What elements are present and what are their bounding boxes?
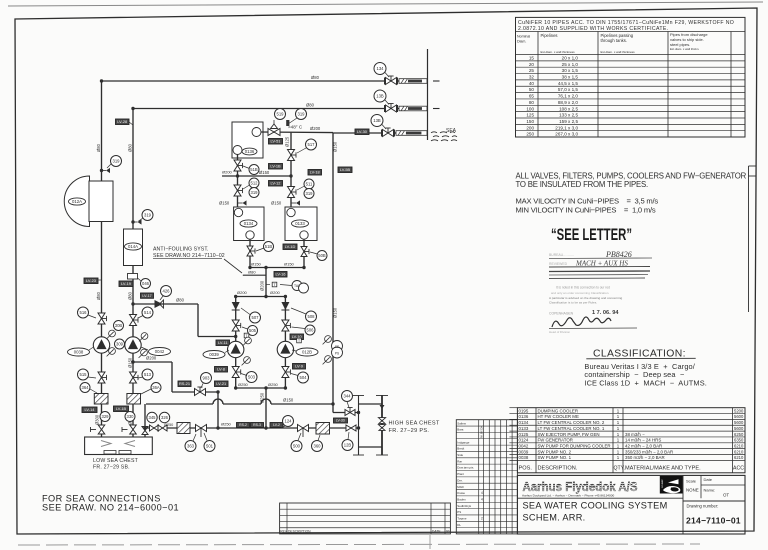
svg-text:Ø80: Ø80	[311, 75, 320, 80]
pipe Ø200 drain from V2	[133, 361, 172, 363]
svg-text:0195: 0195	[519, 408, 529, 413]
svg-text:0042: 0042	[155, 349, 165, 354]
svg-text:RS-21: RS-21	[179, 381, 190, 386]
svg-text:PS: PS	[335, 352, 339, 356]
junction nodes	[236, 174, 239, 177]
vent flag cooler no1 inlet	[291, 202, 296, 204]
thermometer branch no.1	[297, 338, 302, 343]
valve 516 on V1	[98, 313, 107, 324]
pressure gauges V1 pump	[107, 330, 116, 339]
svg-text:100: 100	[526, 106, 534, 111]
svg-text:503: 503	[248, 375, 256, 380]
svg-text:ICE Class 1D + MACH − AUTM: ICE Class 1D + MACH − AUTMS.	[584, 378, 707, 387]
svg-text:6250: 6250	[734, 432, 744, 437]
svg-text:134: 134	[377, 66, 385, 71]
svg-text:SW EJECTOR PUMP, FW GEN: SW EJECTOR PUMP, FW GEN	[538, 432, 600, 437]
pipe cooler outlet to tee	[261, 131, 333, 134]
svg-text:DESCRIPTION: DESCRIPTION	[288, 530, 311, 534]
valve 13B discharge line 2	[386, 104, 397, 113]
svg-text:Ø80: Ø80	[96, 291, 101, 300]
valve on sea chest riser	[142, 427, 148, 435]
valve 344 high sea chest inlet	[345, 408, 355, 416]
label ellipse 014A	[125, 243, 142, 250]
label LV-17 on V2	[141, 293, 154, 298]
valve branch no.2	[232, 320, 241, 331]
label LV-19	[119, 281, 133, 287]
pipe V2 second suction riser	[132, 109, 134, 437]
label LV-12	[269, 181, 283, 187]
svg-text:DUMPING COOLER: DUMPING COOLER	[538, 408, 579, 413]
svg-text:507: 507	[252, 315, 260, 320]
elbow to high sea chest	[332, 404, 334, 413]
svg-text:44,5 x 1,5: 44,5 x 1,5	[558, 81, 579, 86]
circle 326	[159, 412, 169, 422]
svg-text:012A: 012A	[72, 199, 82, 204]
svg-text:LOW SEA CHEST: LOW SEA CHEST	[93, 458, 139, 464]
label ellipse 0039	[203, 351, 225, 359]
sea water filter V2	[127, 394, 141, 405]
vent flag cooler no2 inlet	[238, 202, 243, 204]
svg-text:501: 501	[206, 444, 214, 449]
svg-text:319: 319	[113, 159, 121, 164]
svg-text:LV-11: LV-11	[218, 340, 228, 345]
svg-text:SW PUMP FOR DUMPING COOLER: SW PUMP FOR DUMPING COOLER	[538, 443, 611, 448]
svg-text:0038: 0038	[74, 350, 84, 355]
svg-text:SW PUMP NO. 2: SW PUMP NO. 2	[538, 449, 572, 454]
svg-text:504: 504	[300, 375, 308, 380]
label ellipse 0133	[292, 220, 309, 227]
svg-text:Rør: Rør	[457, 459, 462, 463]
svg-text:319: 319	[251, 190, 259, 195]
svg-text:516: 516	[80, 310, 88, 315]
svg-text:12B: 12B	[344, 443, 352, 448]
sea water filter V1	[94, 394, 108, 405]
label LV-21	[215, 381, 229, 387]
svg-text:14 m3/h − 24 HRS: 14 m3/h − 24 HRS	[625, 438, 661, 443]
svg-text:RS-2: RS-2	[239, 423, 247, 427]
svg-text:Ø200: Ø200	[146, 356, 157, 361]
svg-text:426: 426	[163, 289, 171, 294]
pipe line overboard discharge no.2	[133, 108, 386, 110]
svg-text:Ø150: Ø150	[333, 141, 338, 152]
circle 503	[246, 372, 257, 383]
label LV-5B on V3	[338, 167, 352, 173]
anti-fouling unit 014A	[124, 229, 143, 266]
label ellipse 012A	[69, 198, 86, 205]
svg-text:014A: 014A	[128, 244, 138, 249]
circle 344	[342, 391, 353, 402]
svg-text:6210: 6210	[734, 443, 744, 448]
svg-text:345: 345	[149, 415, 157, 420]
svg-text:MAD: MAD	[457, 485, 463, 489]
svg-text:CuNiFER 10 PIPES ACC. TO DIN 1: CuNiFER 10 PIPES ACC. TO DIN 1755/17671−…	[518, 20, 734, 26]
svg-text:Krøse: Krøse	[457, 491, 465, 495]
label LV-1D	[283, 244, 297, 250]
circle 309	[115, 339, 125, 349]
circle 363	[185, 441, 196, 452]
svg-text:360: 360	[314, 444, 322, 449]
label RS-21	[178, 381, 191, 387]
svg-text:LV-2: LV-2	[273, 423, 280, 427]
svg-text:SE: SE	[335, 345, 339, 349]
svg-text:Baden: Baden	[457, 497, 466, 501]
label LV-1B header	[269, 164, 283, 170]
svg-text:505: 505	[249, 328, 257, 333]
svg-text:57,0 x 1,5: 57,0 x 1,5	[558, 87, 579, 92]
anti-fouling injection fitting	[128, 274, 138, 280]
SW pump no.1 0038	[93, 337, 109, 353]
svg-text:DESCRIPTION.: DESCRIPTION.	[538, 466, 578, 472]
svg-text:Ø150: Ø150	[219, 201, 230, 206]
svg-text:20 x 1,0: 20 x 1,0	[562, 55, 579, 60]
svg-text:LV-3D: LV-3D	[336, 419, 346, 423]
svg-text:6210: 6210	[734, 449, 744, 454]
label ellipse 0136	[242, 148, 257, 155]
svg-text:REV.: REV.	[280, 530, 288, 534]
svg-text:LV-23: LV-23	[86, 278, 96, 283]
svg-text:125: 125	[526, 113, 534, 118]
steel pipe to ship side line 2	[397, 108, 400, 110]
valve 12B bottom right	[346, 425, 356, 431]
valve branch no.1	[282, 320, 291, 331]
svg-text:319: 319	[144, 213, 152, 218]
svg-text:5600: 5600	[734, 414, 744, 419]
svg-text:LV-28: LV-28	[117, 119, 127, 124]
svg-text:POS.: POS.	[519, 466, 533, 472]
svg-text:38 x 1,5: 38 x 1,5	[562, 75, 579, 80]
svg-text:PB8426: PB8426	[605, 250, 632, 259]
check valve on Ø80 branch	[155, 300, 164, 308]
svg-text:NI.BY.DK: NI.BY.DK	[480, 426, 484, 438]
svg-text:124: 124	[285, 419, 293, 424]
valve 515 on V1	[98, 372, 107, 383]
gauges pump 0039	[243, 337, 252, 346]
svg-text:LV-1D: LV-1D	[285, 244, 296, 249]
company logo	[660, 476, 683, 494]
svg-text:51B: 51B	[265, 244, 273, 249]
svg-text:Plant: Plant	[457, 472, 464, 476]
pipe cooler outlet collector	[250, 267, 304, 269]
svg-text:6210: 6210	[734, 455, 744, 460]
valve 134 discharge line 1	[386, 76, 397, 85]
svg-text:159 x 2,5: 159 x 2,5	[559, 119, 578, 124]
svg-text:Drawing number:: Drawing number:	[687, 504, 719, 509]
svg-text:0039: 0039	[519, 449, 529, 454]
materials data strip table	[456, 420, 517, 534]
svg-text:Ø150: Ø150	[259, 170, 270, 175]
svg-text:REVIEWED: REVIEWED	[549, 262, 568, 266]
valve bottom branch no.2	[232, 367, 241, 378]
svg-text:506: 506	[307, 328, 315, 333]
svg-text:13B: 13B	[373, 118, 381, 123]
svg-text:DL: DL	[457, 523, 461, 527]
svg-text:and only an order concerning C: and only an order concerning Classificat…	[551, 291, 609, 295]
svg-text:508: 508	[308, 314, 316, 319]
sea chest outlet valves	[150, 425, 159, 431]
check valve branch no.1	[281, 302, 289, 310]
svg-text:513: 513	[144, 372, 152, 377]
pipe center pump branch no.2	[235, 297, 237, 389]
svg-text:Aarhus Flydedok A/S: Aarhus Flydedok A/S	[523, 480, 638, 494]
svg-text:MAX VILOCITY IN CuNi−PIPES: MAX VILOCITY IN CuNi−PIPES = 3,5 m/s	[516, 197, 659, 206]
svg-text:through tanks.: through tanks.	[601, 38, 628, 43]
svg-text:88,9 x 2,0: 88,9 x 2,0	[558, 100, 579, 105]
label LV-28	[116, 119, 130, 125]
valve 51B top cooler feed	[234, 160, 243, 171]
svg-text:Dre.: Dre.	[457, 478, 463, 482]
valve 501 bottom	[196, 425, 207, 432]
pipe top cooler feed	[237, 154, 239, 209]
svg-text:36A: 36A	[152, 385, 160, 390]
svg-text:76,1 x 2,0: 76,1 x 2,0	[558, 94, 579, 99]
circle 329	[100, 412, 110, 422]
svg-text:Side: Side	[457, 453, 463, 457]
svg-text:Ø125: Ø125	[285, 136, 290, 147]
svg-text:Ø200: Ø200	[270, 290, 281, 295]
circle 30B	[114, 321, 124, 331]
label ellipse 0134	[240, 220, 257, 227]
svg-text:NONE: NONE	[686, 488, 699, 493]
svg-text:Ø250: Ø250	[260, 392, 265, 403]
svg-text:Ext.diam. x wall thickn.: Ext.diam. x wall thickn.	[670, 47, 699, 51]
circle 345	[147, 412, 157, 422]
svg-text:Scale: Scale	[686, 479, 697, 484]
svg-text:1 7. 06. 94: 1 7. 06. 94	[592, 310, 619, 316]
svg-text:214−7110−01: 214−7110−01	[686, 516, 741, 526]
svg-text:32: 32	[529, 75, 535, 80]
svg-text:40: 40	[529, 81, 535, 86]
svg-text:LT FW CENTRAL COOLER NO. 1: LT FW CENTRAL COOLER NO. 1	[538, 426, 605, 431]
svg-text:COPENHAGEN: COPENHAGEN	[549, 312, 574, 316]
svg-text:4: 4	[481, 491, 483, 495]
gauges pump 0125	[323, 336, 332, 345]
svg-text:20: 20	[529, 62, 535, 67]
svg-text:250: 250	[526, 132, 534, 137]
svg-text:363: 363	[187, 444, 195, 449]
label LV-1B	[114, 406, 129, 412]
svg-text:Ø80: Ø80	[306, 103, 315, 108]
svg-text:519: 519	[277, 112, 285, 117]
svg-text:25: 25	[529, 68, 535, 73]
svg-text:326: 326	[161, 415, 169, 420]
vent flag on V2	[133, 221, 138, 223]
svg-text:0133: 0133	[519, 426, 529, 431]
svg-text:511: 511	[306, 182, 313, 187]
circle 319 at three-way	[296, 109, 307, 120]
svg-text:309: 309	[116, 342, 124, 347]
svg-text:Ext.diam. x wall thickness: Ext.diam. x wall thickness	[541, 50, 576, 54]
svg-text:SW PUMP NO. 1: SW PUMP NO. 1	[538, 455, 572, 460]
approval stamp block	[549, 250, 652, 334]
vent flag on V1	[102, 170, 107, 172]
svg-text:15: 15	[529, 55, 535, 60]
pipe V3 recirculation loop	[332, 133, 334, 404]
svg-text:PS: PS	[457, 510, 461, 514]
page top edge line	[8, 2, 763, 6]
circle 511	[304, 179, 314, 189]
svg-text:Bredt: Bredt	[457, 447, 464, 451]
svg-text:903: 903	[203, 376, 211, 381]
SW ejector pump 0125	[277, 341, 293, 357]
svg-text:Ø150: Ø150	[271, 201, 282, 206]
parts list table	[517, 408, 745, 473]
svg-text:0134: 0134	[519, 420, 529, 425]
pipe center pump branch no.1	[284, 297, 286, 389]
circle 134	[374, 63, 386, 75]
svg-text:A particular is advised on the: A particular is advised on the drawing a…	[549, 296, 623, 300]
valve 512 cooler no2 inlet	[234, 185, 243, 196]
strainer low sea chest	[177, 423, 190, 434]
fold mark below frame	[429, 535, 431, 549]
pipe cooler no1 outlet	[303, 239, 305, 268]
svg-text:344: 344	[344, 394, 352, 399]
LT FW central cooler no.1 0133	[285, 207, 317, 241]
pipe specification table frame	[516, 17, 746, 137]
svg-text:TAL: TAL	[294, 284, 300, 288]
svg-text:Ø250: Ø250	[268, 382, 279, 387]
pipe recirculation riser x291	[290, 133, 292, 209]
circle 504	[298, 372, 309, 383]
steel pipe to ship side line 3	[394, 132, 396, 134]
circle 13B	[374, 90, 386, 102]
valve cooler no2 outlet	[247, 246, 255, 256]
label boxes bottom mid	[237, 423, 250, 428]
svg-text:6350: 6350	[734, 438, 744, 443]
stamp signature	[552, 317, 611, 327]
svg-text:SEA: SEA	[446, 128, 457, 134]
svg-text:80: 80	[529, 100, 535, 105]
svg-text:SN.: SN.	[446, 530, 452, 534]
svg-text:LV-16: LV-16	[276, 272, 286, 277]
pipe bottom main suction	[145, 427, 359, 429]
label ellipse 0038	[68, 348, 90, 356]
svg-text:LV-1B: LV-1B	[270, 164, 281, 169]
svg-text:Ø150: Ø150	[284, 262, 295, 267]
svg-text:FW GENERATOR: FW GENERATOR	[538, 438, 573, 443]
label LV-3D	[334, 418, 348, 423]
svg-text:“SEE LETTER”: “SEE LETTER”	[551, 226, 632, 244]
circle 513	[142, 369, 153, 380]
svg-text:LV-18: LV-18	[310, 170, 320, 175]
svg-text:Ø80: Ø80	[176, 298, 185, 303]
svg-text:515: 515	[80, 372, 88, 377]
svg-text:51B: 51B	[250, 167, 258, 172]
revision table	[280, 503, 451, 534]
label ellipse 0125 group	[296, 348, 318, 356]
circle 319 top V1	[111, 156, 122, 167]
svg-text:Ø80: Ø80	[128, 143, 133, 152]
thermometer pocket riser	[272, 282, 277, 287]
circle 512	[249, 178, 259, 188]
svg-text:2.0872.10 AND SUPPLIED WITH WO: 2.0872.10 AND SUPPLIED WITH WORKS CERTIF…	[518, 26, 669, 32]
svg-text:0125: 0125	[519, 432, 529, 437]
pipe pump discharge manifold	[236, 296, 286, 298]
svg-text:Ø200: Ø200	[237, 290, 248, 295]
double circle SE gauge	[332, 341, 343, 359]
svg-text:0134: 0134	[244, 221, 254, 226]
svg-text:Sedbrittryk: Sedbrittryk	[457, 504, 471, 508]
label LV-30	[355, 129, 369, 135]
circle 319 on V2	[142, 210, 153, 221]
circle 515	[78, 369, 89, 380]
svg-text:512: 512	[251, 181, 259, 186]
circle 046	[141, 279, 151, 289]
svg-text:Sailem: Sailem	[457, 421, 466, 425]
svg-text:FR. 27−29 SB.: FR. 27−29 SB.	[93, 465, 130, 471]
svg-text:Ext.diam. x wall thickness: Ext.diam. x wall thickness	[601, 50, 636, 54]
svg-text:RS-3: RS-3	[253, 423, 261, 427]
svg-text:5600: 5600	[734, 420, 744, 425]
pipe line overboard discharge no.1	[102, 80, 386, 82]
high sea chest grating	[358, 395, 360, 455]
svg-text:TO BE INSULATED FROM THE PIPES: TO BE INSULATED FROM THE PIPES.	[516, 180, 648, 189]
svg-text:LV-8: LV-8	[217, 367, 225, 372]
valve 513 on V2	[130, 372, 139, 383]
HT FW cooler 0136	[232, 122, 263, 158]
pipe branch Ø80 anti-fouling supply	[133, 303, 198, 305]
svg-text:Ø250: Ø250	[238, 382, 249, 387]
svg-text:LV-17: LV-17	[142, 294, 151, 298]
sea chest valve V2	[130, 425, 137, 434]
svg-text:133 x 2,5: 133 x 2,5	[559, 113, 578, 118]
svg-text:012B: 012B	[302, 350, 312, 355]
circle 514	[142, 307, 153, 318]
sea suction strainer 012A hull piece	[64, 176, 89, 227]
svg-text:5600: 5600	[734, 426, 744, 431]
circle 517	[306, 139, 317, 150]
svg-text:0039: 0039	[209, 352, 219, 357]
svg-text:Ø80: Ø80	[248, 270, 256, 275]
svg-text:0136: 0136	[245, 149, 255, 154]
svg-text:SCHEM. ARR.: SCHEM. ARR.	[523, 513, 586, 523]
svg-text:AARHUS: AARHUS	[661, 480, 664, 489]
SW pump 0042 dumping cooler pump	[125, 337, 141, 353]
svg-text:150: 150	[526, 119, 534, 124]
svg-text:Ø300: Ø300	[95, 414, 100, 425]
svg-text:···········: ···········	[562, 254, 574, 258]
svg-text:Ø200: Ø200	[222, 170, 233, 175]
svg-text:200: 200	[526, 125, 534, 130]
svg-text:046: 046	[142, 281, 150, 286]
svg-text:330: 330	[127, 414, 135, 419]
label LV-14	[82, 407, 97, 413]
circle 500	[291, 441, 302, 452]
circle 903	[201, 373, 212, 384]
svg-text:65: 65	[529, 94, 535, 99]
pipe cooler inlet header Ø150	[222, 175, 291, 177]
svg-text:QTY.: QTY.	[614, 466, 625, 472]
svg-text:HT FW COOLER ME: HT FW COOLER ME	[538, 414, 579, 419]
svg-text:13B: 13B	[376, 94, 384, 99]
svg-text:42 m3/h − 2,0 BAR: 42 m3/h − 2,0 BAR	[625, 443, 662, 448]
svg-text:DATE: DATE	[432, 530, 441, 534]
svg-text:38 m3/h −: 38 m3/h −	[625, 432, 645, 437]
svg-text:SEA WATER COOLING SYSTEM: SEA WATER COOLING SYSTEM	[523, 501, 668, 511]
sea chest valve V1	[98, 425, 105, 434]
SW pump no.2 0039	[228, 341, 244, 357]
svg-text:364: 364	[82, 385, 90, 390]
circle 508	[306, 311, 317, 322]
circle 364	[80, 383, 90, 393]
anti-fouling injection stub	[243, 274, 266, 276]
svg-text:319: 319	[298, 112, 306, 117]
svg-text:LV-5B: LV-5B	[340, 167, 351, 172]
svg-text:Ø80: Ø80	[128, 291, 133, 300]
pipe pump suction manifold	[236, 387, 286, 389]
label LV-9	[293, 364, 306, 370]
valve 13B discharge line 3	[383, 128, 394, 137]
svg-text:2: 2	[481, 517, 483, 521]
